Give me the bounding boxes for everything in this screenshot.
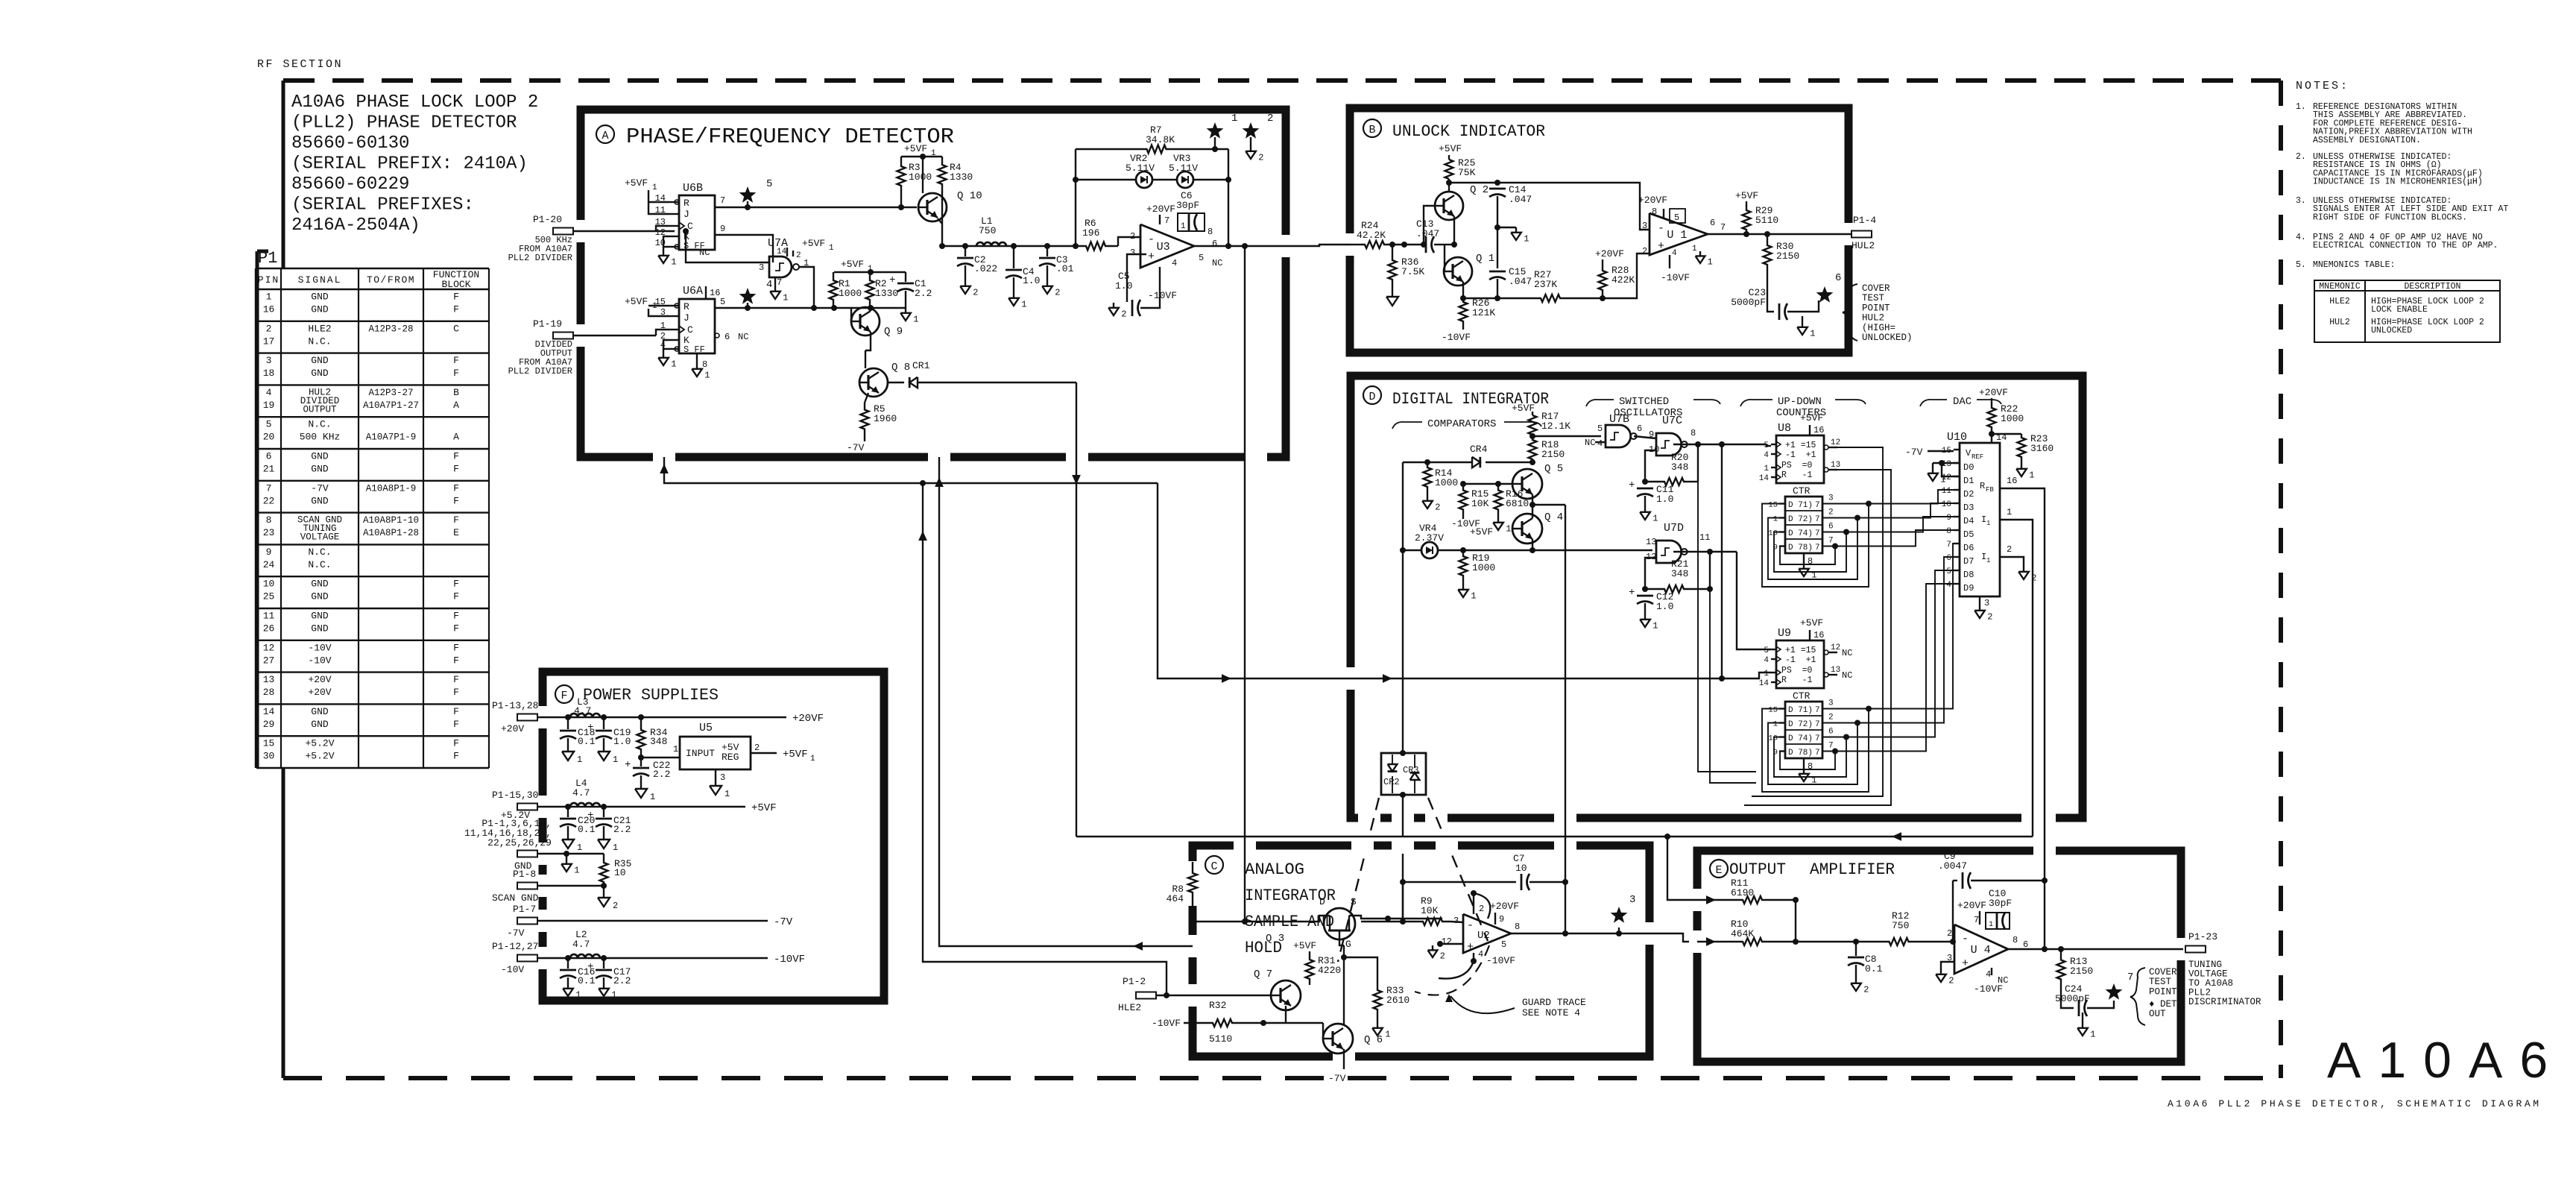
- block D header: [1363, 386, 1381, 404]
- svg-text:14: 14: [1759, 679, 1770, 688]
- svg-text:1330: 1330: [875, 288, 898, 299]
- op-amp U1: [1650, 213, 1708, 255]
- svg-text:1: 1: [613, 755, 618, 765]
- counter U9 output wires to DAC: [1822, 544, 1960, 709]
- wire +5VF rail: [537, 806, 745, 807]
- svg-text:P1-15,30: P1-15,30: [492, 790, 538, 801]
- svg-text:1: 1: [671, 257, 676, 268]
- svg-text:11: 11: [1699, 532, 1710, 543]
- svg-text:P1-13,28: P1-13,28: [492, 700, 538, 711]
- svg-text:F: F: [453, 611, 459, 622]
- ground U2 pin12: [1434, 944, 1440, 947]
- resistor R13: [2060, 949, 2062, 957]
- svg-text:UP-DOWN: UP-DOWN: [1778, 396, 1822, 408]
- svg-text:7: 7: [1828, 742, 1834, 751]
- capacitor C11: [1637, 488, 1653, 490]
- svg-text:1: 1: [613, 843, 618, 853]
- svg-text:N.C.: N.C.: [308, 336, 331, 347]
- wire R25 node to U1 pin3: [1497, 183, 1650, 230]
- svg-text:11: 11: [1942, 487, 1952, 496]
- svg-text:6: 6: [1710, 218, 1715, 228]
- svg-text:F: F: [453, 368, 459, 379]
- svg-text:2.2: 2.2: [613, 975, 631, 986]
- svg-text:U 4: U 4: [1971, 944, 1991, 957]
- svg-text:19: 19: [263, 400, 275, 411]
- transistor Q1: [1444, 257, 1472, 286]
- svg-text:3: 3: [1984, 598, 1989, 608]
- svg-text:10: 10: [614, 867, 626, 878]
- svg-text:14: 14: [263, 706, 275, 717]
- svg-text:10K: 10K: [1471, 498, 1489, 509]
- svg-text:14: 14: [777, 248, 787, 256]
- resistor R23: [1992, 433, 2021, 435]
- resistor R4: [938, 157, 947, 192]
- capacitor C12: [1637, 595, 1653, 597]
- comparators group label: [1392, 422, 1404, 429]
- svg-text:85660-60229: 85660-60229: [291, 174, 409, 195]
- svg-text:9: 9: [266, 547, 272, 558]
- svg-text:+5VF: +5VF: [1470, 526, 1493, 538]
- bracket cover test point HUL2: [1843, 284, 1857, 341]
- svg-text:7: 7: [1974, 915, 1979, 925]
- svg-text:+20VF: +20VF: [1638, 195, 1667, 206]
- ground C22: [640, 783, 642, 789]
- svg-text:4: 4: [1478, 949, 1483, 960]
- Q2 emitter: [1453, 216, 1455, 245]
- wire drain: [1222, 916, 1330, 922]
- Q10 emitter wire: [938, 218, 942, 224]
- svg-text:7: 7: [1828, 537, 1834, 546]
- svg-text:5: 5: [266, 419, 272, 430]
- svg-text:-10VF: -10VF: [1974, 983, 2003, 995]
- svg-text:U6A: U6A: [683, 285, 703, 297]
- svg-text:348: 348: [650, 736, 667, 747]
- svg-text:F: F: [453, 355, 459, 366]
- svg-text:TO/FROM: TO/FROM: [367, 274, 415, 286]
- wire P1-20 input: [573, 230, 656, 232]
- svg-text:D 74): D 74): [1788, 529, 1813, 538]
- resistor R3: [897, 157, 906, 195]
- svg-text:11: 11: [263, 611, 275, 622]
- svg-text:6: 6: [266, 451, 272, 462]
- wire Q5 Q4 output: [1532, 504, 1565, 506]
- svg-text:GND: GND: [311, 579, 329, 590]
- svg-text:DAC: DAC: [1953, 396, 1972, 408]
- counter U8 pin 8 ground: [1803, 553, 1805, 564]
- svg-text:5: 5: [1764, 646, 1769, 655]
- svg-text:A: A: [453, 432, 459, 443]
- svg-text:R -1: R -1: [1781, 675, 1813, 685]
- wire HLE2 riser: [923, 483, 1167, 995]
- ground C18: [567, 746, 569, 752]
- svg-text:-7V: -7V: [507, 928, 525, 939]
- wire P1-2 to block C: [1156, 995, 1193, 996]
- Q1 emitter wire: [1462, 282, 1464, 298]
- resistor R1: [830, 272, 838, 308]
- svg-text:1000: 1000: [839, 288, 862, 299]
- svg-text:1: 1: [1708, 257, 1713, 268]
- svg-text:+5VF: +5VF: [1293, 940, 1316, 951]
- corridor branch to R11: [1667, 837, 1697, 900]
- svg-text:3: 3: [759, 262, 764, 273]
- svg-text:1.: 1.: [2296, 102, 2306, 112]
- svg-text:10: 10: [263, 579, 275, 590]
- capacitor C3: [1046, 246, 1048, 256]
- svg-text:GUARD TRACE: GUARD TRACE: [1522, 997, 1586, 1008]
- svg-text:1: 1: [575, 990, 581, 1001]
- svg-text:-10V: -10V: [308, 642, 331, 653]
- svg-text:1: 1: [1021, 300, 1026, 310]
- wire U7D output: [1673, 551, 1737, 552]
- svg-text:15: 15: [1768, 706, 1778, 715]
- svg-text:1: 1: [783, 293, 788, 303]
- svg-text:7: 7: [720, 195, 725, 206]
- svg-text:2150: 2150: [2070, 966, 2093, 977]
- svg-text:28: 28: [263, 687, 275, 698]
- wire -7V: [537, 920, 768, 922]
- svg-text:2: 2: [796, 251, 801, 260]
- svg-text:.047: .047: [1509, 276, 1532, 287]
- svg-text:P1-20: P1-20: [533, 214, 562, 225]
- svg-text:26: 26: [263, 623, 275, 634]
- svg-text:A12P3-28: A12P3-28: [368, 324, 413, 334]
- svg-text:12: 12: [1831, 643, 1840, 652]
- svg-text:1.0: 1.0: [1115, 280, 1132, 292]
- svg-text:1: 1: [810, 755, 815, 763]
- svg-text:-7V: -7V: [1328, 1073, 1346, 1084]
- svg-text:4.7: 4.7: [574, 705, 591, 717]
- svg-text:2: 2: [1258, 153, 1263, 163]
- svg-text:-10VF: -10VF: [1152, 1018, 1181, 1029]
- svg-text:F: F: [453, 591, 459, 602]
- svg-text:15: 15: [1768, 501, 1778, 510]
- ground star 2: [1250, 137, 1251, 146]
- svg-text:A: A: [453, 400, 459, 411]
- svg-text:2: 2: [613, 901, 618, 911]
- svg-text:3.: 3.: [2296, 196, 2306, 206]
- svg-text:D2: D2: [1963, 489, 1974, 500]
- svg-text:F: F: [453, 655, 459, 666]
- svg-text:2.2: 2.2: [915, 288, 932, 299]
- wire R32 node: [1263, 1006, 1286, 1023]
- svg-text:29: 29: [263, 719, 275, 730]
- svg-text:9: 9: [1499, 914, 1504, 925]
- svg-text:464: 464: [1167, 893, 1184, 904]
- ground C20: [567, 834, 569, 840]
- svg-text:D0: D0: [1963, 462, 1974, 473]
- svg-text:3: 3: [266, 355, 272, 366]
- svg-text:+: +: [1467, 941, 1474, 954]
- svg-text:R32: R32: [1209, 1000, 1226, 1011]
- svg-text:7: 7: [2127, 971, 2133, 983]
- switched oscillators group label: [1586, 400, 1598, 406]
- svg-text:D6: D6: [1963, 543, 1974, 553]
- block B header: [1363, 119, 1381, 137]
- svg-text:N.C.: N.C.: [308, 559, 331, 570]
- Q10 collector wire: [922, 157, 924, 193]
- svg-text:GND: GND: [311, 611, 329, 622]
- svg-text:F: F: [453, 579, 459, 590]
- star test point 1: [1207, 122, 1224, 139]
- svg-text:PLL2 DIVIDER: PLL2 DIVIDER: [508, 366, 572, 377]
- svg-text:Q 5: Q 5: [1544, 463, 1563, 475]
- ground C23: [1802, 322, 1803, 327]
- ground C19: [603, 746, 604, 752]
- svg-text:2: 2: [1987, 612, 1992, 623]
- svg-text:16: 16: [710, 288, 720, 298]
- svg-text:1: 1: [829, 244, 834, 253]
- Q4 emitter to VR4 rail: [1532, 539, 1533, 550]
- svg-text:-10VF: -10VF: [1486, 955, 1515, 966]
- Q9 collector: [870, 308, 871, 311]
- svg-text:COVER: COVER: [2149, 967, 2177, 977]
- svg-text:B: B: [453, 387, 459, 398]
- svg-text:7: 7: [1946, 541, 1951, 549]
- wire U2 feedback to A: [939, 457, 1193, 946]
- svg-text:1: 1: [1773, 720, 1778, 729]
- svg-text:7: 7: [266, 482, 272, 494]
- svg-text:UNLOCK INDICATOR: UNLOCK INDICATOR: [1392, 122, 1545, 141]
- function block F frame: [543, 672, 884, 1001]
- svg-text:4.7: 4.7: [572, 787, 590, 799]
- svg-text:23: 23: [263, 527, 275, 538]
- svg-text:7: 7: [1815, 515, 1820, 524]
- svg-text:+20V: +20V: [308, 674, 331, 685]
- svg-text:R: R: [684, 301, 689, 312]
- svg-text:1: 1: [1989, 921, 1993, 929]
- svg-text:U6B: U6B: [683, 182, 703, 195]
- svg-text:6190: 6190: [1731, 887, 1754, 898]
- ground C8: [1855, 978, 1857, 983]
- svg-text:-7V: -7V: [847, 442, 865, 453]
- svg-text:A12P3-27: A12P3-27: [368, 388, 413, 398]
- svg-text:2: 2: [1267, 113, 1273, 125]
- svg-text:U2: U2: [1477, 930, 1490, 942]
- svg-text:DISCRIMINATOR: DISCRIMINATOR: [2188, 997, 2261, 1007]
- svg-text:REG: REG: [722, 752, 739, 763]
- svg-text:4.: 4.: [2296, 233, 2306, 242]
- svg-text:2.2: 2.2: [653, 769, 670, 780]
- svg-text:+: +: [587, 810, 593, 822]
- svg-text:.0047: .0047: [1938, 860, 1967, 872]
- svg-text:0.1: 0.1: [578, 736, 596, 747]
- svg-text:7: 7: [1815, 544, 1820, 552]
- svg-text:D7: D7: [1963, 556, 1974, 567]
- ground R19: [1462, 582, 1464, 585]
- svg-text:LOCK ENABLE: LOCK ENABLE: [2371, 305, 2428, 315]
- svg-text:CR4: CR4: [1470, 444, 1488, 455]
- capacitor C4: [1013, 246, 1014, 268]
- transistor Q4: [1512, 514, 1542, 544]
- svg-text:+5VF: +5VF: [751, 802, 777, 814]
- svg-text:P1-19: P1-19: [533, 318, 562, 330]
- svg-text:2: 2: [1828, 714, 1834, 722]
- svg-text:A10A6 PLL2 PHASE DETECTOR, SCH: A10A6 PLL2 PHASE DETECTOR, SCHEMATIC DIA…: [2168, 1098, 2542, 1109]
- svg-text:3160: 3160: [2030, 443, 2053, 454]
- svg-text:1: 1: [1940, 475, 1945, 485]
- svg-text:8: 8: [1946, 527, 1951, 536]
- svg-text:POWER SUPPLIES: POWER SUPPLIES: [583, 686, 719, 705]
- svg-text:GND: GND: [311, 495, 329, 506]
- inductor L2: [570, 954, 600, 958]
- svg-text:HUL2: HUL2: [1851, 240, 1875, 251]
- U4 plus input ground: [1941, 962, 1954, 969]
- U6A pin 8 ground: [696, 353, 698, 364]
- wire P1-2 to Q7: [1193, 995, 1271, 996]
- svg-text:1000: 1000: [1472, 562, 1495, 573]
- resistor R36: [1392, 245, 1393, 255]
- P1 connector table: [256, 268, 489, 269]
- svg-text:D 72): D 72): [1788, 720, 1813, 729]
- svg-text:6810: 6810: [1506, 498, 1529, 509]
- svg-text:(SERIAL PREFIXES:: (SERIAL PREFIXES:: [291, 195, 474, 215]
- svg-text:0.1: 0.1: [578, 824, 596, 835]
- svg-text:1: 1: [1764, 464, 1769, 473]
- svg-text:NC: NC: [1585, 438, 1595, 448]
- svg-text:1: 1: [1506, 524, 1511, 535]
- ground C24: [2082, 1012, 2083, 1023]
- wire DAC RFB to C9 node: [2044, 818, 2045, 949]
- svg-text:U10: U10: [1947, 431, 1967, 444]
- svg-text:+20VF: +20VF: [792, 713, 824, 725]
- block E header: [1710, 860, 1728, 878]
- svg-text:COVER: COVER: [1862, 283, 1890, 294]
- svg-text:-10V: -10V: [308, 655, 331, 666]
- svg-text:1: 1: [2007, 507, 2012, 517]
- block F header: [555, 685, 573, 703]
- svg-text:2: 2: [2031, 573, 2036, 584]
- wire P1-19 input: [573, 335, 656, 336]
- wire GND to R35: [537, 853, 604, 854]
- svg-text:+: +: [1962, 957, 1969, 970]
- svg-text:348: 348: [1671, 462, 1688, 473]
- U1 pin 5 box: [1670, 209, 1685, 223]
- function block A frame: [581, 110, 1286, 457]
- svg-text:2: 2: [1828, 508, 1834, 517]
- svg-text:2: 2: [2007, 544, 2012, 555]
- ground C14 stub: [1497, 227, 1516, 228]
- ground C3: [1046, 281, 1048, 286]
- block C header: [1205, 856, 1223, 874]
- svg-text:F: F: [453, 292, 459, 303]
- resistor R34: [640, 717, 642, 725]
- svg-text:F: F: [453, 623, 459, 634]
- svg-text:GND: GND: [311, 451, 329, 462]
- svg-text:1: 1: [574, 866, 579, 876]
- counter U8 feedback loops: [1866, 501, 1872, 507]
- svg-text:2.2: 2.2: [613, 824, 631, 835]
- svg-text:N.C.: N.C.: [308, 419, 331, 430]
- svg-text:VOLTAGE: VOLTAGE: [300, 532, 340, 543]
- transistor Q9: [851, 307, 880, 336]
- wire C7 to output node: [1565, 882, 1566, 933]
- resistor R2: [866, 272, 874, 308]
- svg-text:1000: 1000: [909, 171, 932, 183]
- svg-text:R: R: [1980, 481, 1985, 491]
- svg-text:A10A7P1-27: A10A7P1-27: [363, 400, 419, 411]
- ground C21: [603, 834, 604, 840]
- svg-text:PS =0: PS =0: [1781, 461, 1813, 470]
- svg-text:+5.2V: +5.2V: [305, 738, 334, 749]
- guard trace annotation: [1415, 945, 1489, 995]
- ground R14: [1427, 492, 1428, 496]
- ground C2: [965, 281, 966, 286]
- svg-text:+: +: [889, 274, 895, 286]
- svg-text:1: 1: [2090, 1030, 2095, 1040]
- svg-text:D 74): D 74): [1788, 734, 1813, 743]
- outer sheet dashed border right: [2279, 81, 2283, 1078]
- svg-text:20: 20: [263, 432, 275, 443]
- svg-text:4: 4: [1172, 258, 1177, 268]
- svg-text:.047: .047: [1416, 228, 1439, 239]
- svg-text:7: 7: [1815, 734, 1820, 743]
- ground GND pin: [566, 854, 567, 859]
- svg-text:7: 7: [1815, 749, 1820, 758]
- diode box CR2 CR3: [1381, 753, 1426, 795]
- svg-text:+20V: +20V: [501, 723, 524, 734]
- svg-text:R: R: [684, 198, 689, 209]
- svg-text:(SERIAL PREFIX: 2410A): (SERIAL PREFIX: 2410A): [291, 154, 528, 174]
- svg-text:D 71): D 71): [1788, 501, 1813, 510]
- svg-text:2.: 2.: [2296, 152, 2306, 162]
- svg-text:SCAN GND: SCAN GND: [492, 892, 539, 904]
- svg-text:12: 12: [263, 642, 275, 653]
- svg-text:16: 16: [2007, 476, 2017, 486]
- wire VR4 rail to CR box: [1402, 462, 1404, 753]
- svg-text:500 KHz: 500 KHz: [300, 432, 341, 443]
- mnemonics table: [2314, 280, 2500, 342]
- svg-text:30: 30: [263, 751, 275, 762]
- svg-text:0.1: 0.1: [578, 975, 596, 986]
- svg-text:HLE2: HLE2: [308, 323, 331, 334]
- ground R16: [1497, 516, 1499, 517]
- svg-text:34.8K: 34.8K: [1146, 134, 1175, 145]
- svg-text:♦ DET: ♦ DET: [2149, 999, 2177, 1010]
- capacitor C21: [603, 807, 604, 817]
- svg-text:6: 6: [1946, 554, 1951, 563]
- svg-text:196: 196: [1082, 227, 1099, 239]
- svg-text:NC: NC: [1842, 648, 1852, 658]
- svg-text:GND: GND: [311, 368, 329, 379]
- U7A inputs: [686, 231, 769, 262]
- svg-text:COMPARATORS: COMPARATORS: [1427, 418, 1496, 430]
- counter U9 pin 8 ground: [1803, 758, 1805, 769]
- svg-text:GND: GND: [311, 706, 329, 717]
- svg-text:D 72): D 72): [1788, 515, 1813, 524]
- svg-text:5: 5: [1764, 441, 1769, 450]
- svg-text:D1: D1: [1963, 476, 1974, 486]
- svg-text:21: 21: [263, 464, 275, 475]
- svg-text:+: +: [1629, 479, 1635, 491]
- svg-text:17: 17: [263, 336, 275, 347]
- svg-text:2: 2: [1130, 231, 1135, 242]
- svg-text:S: S: [1351, 896, 1357, 907]
- svg-text:.047: .047: [1509, 194, 1532, 205]
- svg-text:13: 13: [263, 674, 275, 685]
- svg-text:A10A6: A10A6: [2327, 1032, 2565, 1089]
- svg-text:-10VF: -10VF: [774, 954, 805, 966]
- wire gate to R33: [1344, 957, 1377, 986]
- svg-text:ANALOG: ANALOG: [1245, 860, 1304, 879]
- svg-text:42.2K: 42.2K: [1357, 230, 1386, 241]
- ground R23: [2021, 461, 2022, 464]
- U8 pins12 13 drop wires: [1752, 447, 1883, 796]
- svg-text:F: F: [453, 738, 459, 749]
- svg-text:+1 =15: +1 =15: [1785, 646, 1816, 655]
- connector GND: [517, 851, 537, 857]
- svg-text:1: 1: [650, 792, 655, 802]
- wire source to R9: [1349, 916, 1442, 919]
